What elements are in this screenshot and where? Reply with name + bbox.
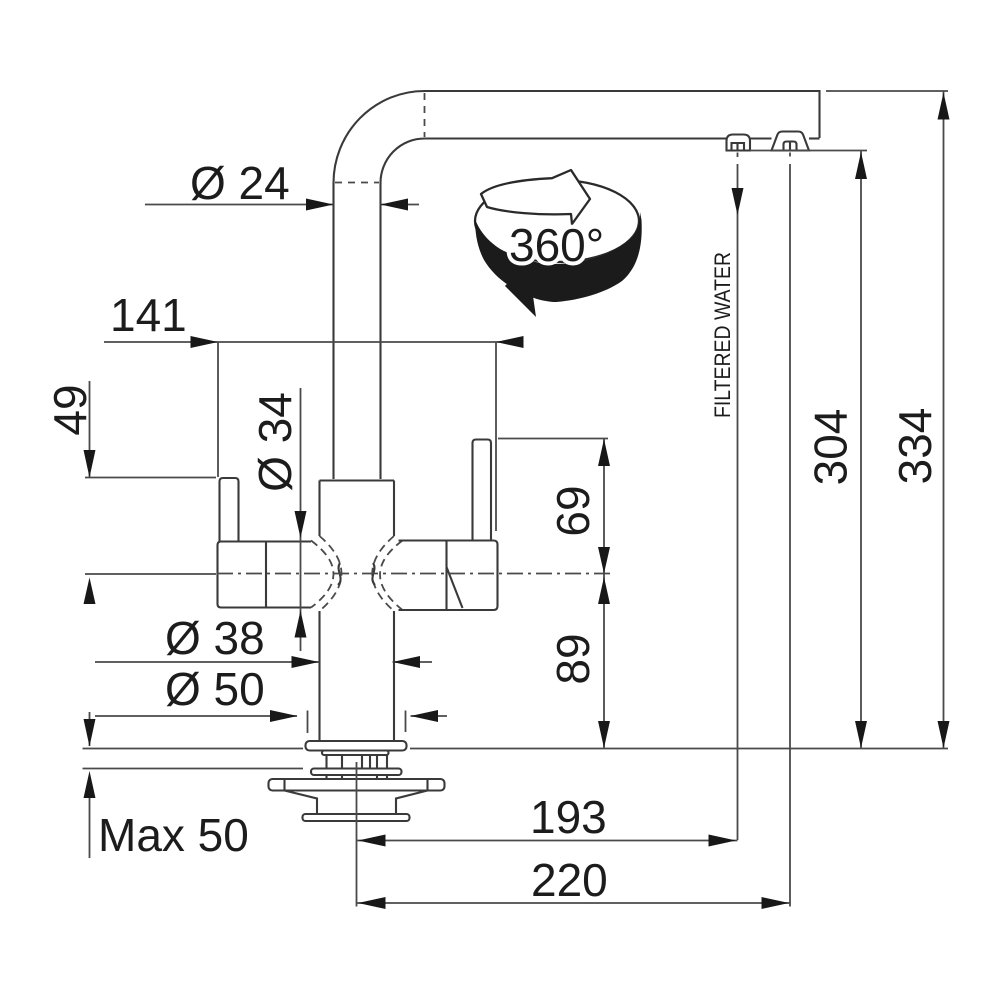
pipe underside between nozzles <box>750 137 772 139</box>
Ø50 ticks <box>308 711 406 734</box>
svg-text:FILTERED WATER: FILTERED WATER <box>710 252 735 418</box>
riser pipe left edge <box>332 183 334 479</box>
360 rotation symbol: rim ellipse <box>475 180 639 262</box>
ext line 49 top <box>85 477 216 479</box>
ext line 334 top <box>826 90 948 92</box>
dim 193 line <box>357 840 738 842</box>
nozzle (filtered water outlet) <box>727 135 751 151</box>
flange lower tier <box>322 751 389 756</box>
dim 220 line <box>357 902 791 904</box>
riser pipe right edge <box>379 183 381 479</box>
ext line 141 left (to left lever) <box>217 342 219 477</box>
spout outer profile (bend + top + right wall) <box>334 91 820 183</box>
dim 89 line <box>603 574 605 749</box>
lower body right edge <box>393 611 395 741</box>
svg-text:141: 141 <box>110 289 187 341</box>
svg-text:193: 193 <box>530 791 607 843</box>
svg-text:304: 304 <box>805 409 857 486</box>
dim Max50 arrows <box>89 712 91 746</box>
threaded shank lower <box>327 775 388 779</box>
dim Ø24 line right <box>381 204 420 206</box>
nozzle (main aerator) <box>772 132 810 151</box>
bend tangent dash horizontal <box>335 182 379 184</box>
ext line 49 bottom / centerline extension <box>85 573 216 575</box>
filtered water flow arrow <box>732 188 744 215</box>
handles centerline (dash-dot) <box>217 573 612 575</box>
skirt cone left <box>285 791 318 815</box>
faucet axis line <box>356 762 358 907</box>
dim Ø24 line left <box>145 204 333 206</box>
svg-text:220: 220 <box>531 854 608 906</box>
dim Ø50 line <box>95 715 297 717</box>
upper body right edge <box>393 481 395 537</box>
dim 334 line <box>943 91 945 749</box>
dim Ø34 leader with arrows <box>300 388 302 651</box>
extension line under nozzles (304 ref) <box>750 150 867 152</box>
spout inner profile (inner bend + pipe underside to nozzle 1) <box>381 139 727 184</box>
left handle body <box>218 542 312 608</box>
left handle divider <box>265 542 267 608</box>
svg-text:Ø 24: Ø 24 <box>190 157 290 209</box>
svg-text:360°: 360° <box>509 219 604 271</box>
mounting washer <box>311 769 402 776</box>
apex squiggle left <box>338 563 341 585</box>
dim 49 line + arrows <box>89 381 91 477</box>
ext line 141 right (to right lever) <box>495 342 497 531</box>
skirt cone right <box>396 791 428 815</box>
upper body shoulder <box>320 479 395 481</box>
upper body left edge <box>318 481 320 537</box>
bottom ring <box>303 814 410 821</box>
svg-text:69: 69 <box>547 485 599 536</box>
right handle lever edge (diagonal) <box>447 567 463 608</box>
lower body left edge <box>318 611 320 741</box>
dim 141 line <box>104 341 523 343</box>
threaded shank upper <box>327 755 388 769</box>
dim 69 line <box>603 439 605 574</box>
pipe underside right of nozzle 2 <box>809 137 820 139</box>
hidden transition curves right (dashed) <box>372 536 394 611</box>
right handle divider <box>445 541 447 611</box>
svg-text:Ø 34: Ø 34 <box>249 392 301 492</box>
dim Ø38 line <box>95 661 319 663</box>
svg-text:Ø 50: Ø 50 <box>165 663 265 715</box>
countertop surface line <box>83 748 949 750</box>
360 rotation symbol: white arrow <box>481 170 590 224</box>
svg-text:Max 50: Max 50 <box>98 809 249 861</box>
360 rotation symbol: black band <box>475 212 642 302</box>
hidden transition curves left (dashed) <box>320 536 342 611</box>
bend tangent dash vertical <box>424 93 426 137</box>
filtered water leader line <box>737 153 739 841</box>
right handle lever rod <box>473 440 492 541</box>
left handle lever rod <box>220 478 239 542</box>
countertop bottom line <box>83 768 304 770</box>
base flange <box>306 741 407 751</box>
base cover plate <box>269 779 445 791</box>
ext line 69 top (from right lever) <box>498 438 608 440</box>
svg-text:89: 89 <box>547 633 599 684</box>
right handle body <box>399 541 498 611</box>
svg-text:49: 49 <box>44 384 96 435</box>
360 rotation symbol: black arrow head <box>505 261 536 317</box>
svg-text:Ø 38: Ø 38 <box>165 612 265 664</box>
svg-text:334: 334 <box>889 408 941 485</box>
ext line 220 (from aerator) <box>789 153 791 907</box>
dim 304 line <box>860 151 862 749</box>
apex squiggle right <box>372 563 375 585</box>
